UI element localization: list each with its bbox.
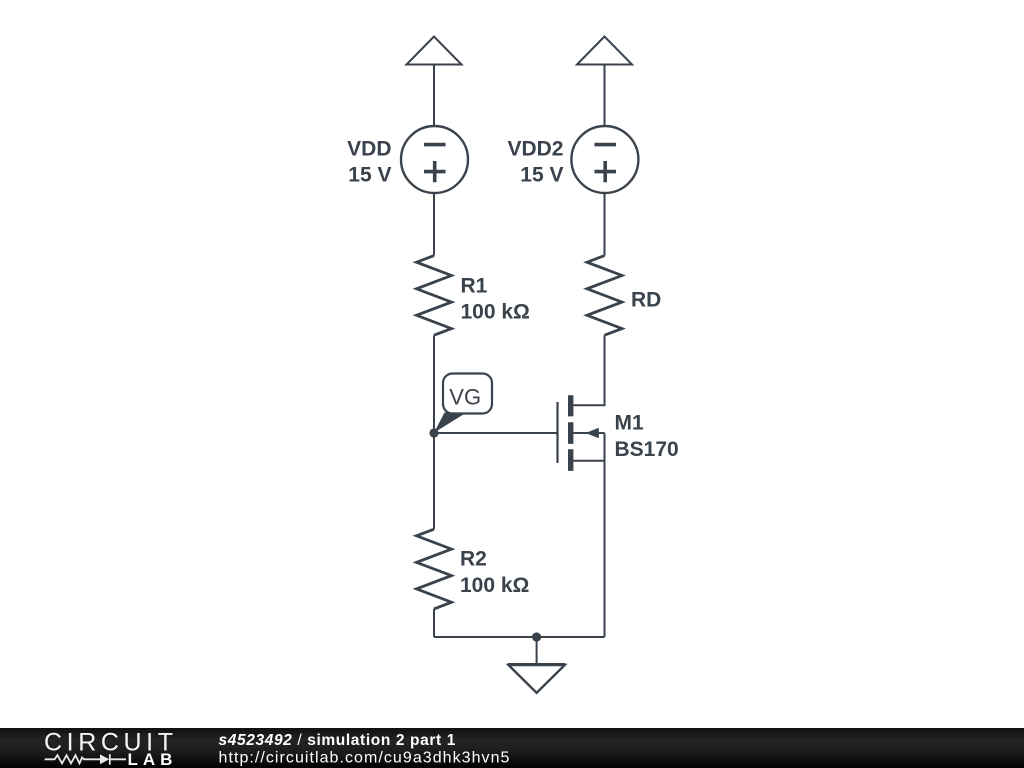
- power flag (VDD branch): [407, 37, 462, 65]
- svg-text:BS170: BS170: [615, 438, 679, 461]
- V1 minus sign: [424, 143, 446, 147]
- label VDD2: [507, 138, 563, 161]
- footer credit line 1: [219, 732, 456, 749]
- CircuitLab logo wordmark LAB: [128, 750, 178, 768]
- label M1: [615, 412, 644, 435]
- node VG dot: [429, 428, 438, 437]
- wire gate (node VG to M1 gate): [434, 432, 557, 434]
- footer url line 2: [219, 750, 511, 767]
- label M1 part BS170: [615, 438, 679, 461]
- resistor R2: [417, 529, 452, 609]
- V2 minus sign: [595, 143, 617, 147]
- wire M1 source/body down to bottom rail: [604, 433, 606, 637]
- label R2 value 100 kOhm: [460, 574, 529, 597]
- svg-text:RD: RD: [631, 289, 661, 312]
- svg-text:http://circuitlab.com/cu9a3dhk: http://circuitlab.com/cu9a3dhk3hvn5: [219, 750, 511, 767]
- svg-text:M1: M1: [615, 412, 644, 435]
- svg-text:100 kΩ: 100 kΩ: [461, 301, 530, 324]
- label R1 value 100 kOhm: [461, 301, 530, 324]
- label R2: [460, 548, 487, 571]
- CircuitLab logo resistor-diode glyph: [45, 754, 126, 764]
- svg-text:R1: R1: [461, 275, 488, 298]
- wire V2 to RD: [604, 193, 606, 256]
- wire flag2 to V2: [604, 65, 606, 127]
- resistor R1: [417, 256, 452, 336]
- footer bar: [0, 728, 1024, 768]
- svg-text:15 V: 15 V: [348, 164, 391, 187]
- V1 plus sign: [424, 161, 446, 182]
- label VDD: [347, 138, 391, 161]
- junction dot bottom rail: [532, 632, 541, 641]
- wire V1 to R1: [433, 193, 435, 256]
- transistor M1 body arrow: [573, 428, 604, 438]
- flag VG box: [443, 374, 492, 414]
- svg-text:VG: VG: [449, 384, 481, 409]
- wire RD to M1 drain: [573, 335, 604, 405]
- voltage source V2 circle: [571, 126, 638, 193]
- svg-text:VDD2: VDD2: [507, 138, 563, 161]
- label RD: [631, 289, 661, 312]
- transistor M1 gate pole: [556, 402, 558, 463]
- CircuitLab logo wordmark CIRCUIT: [44, 729, 178, 757]
- label R1: [461, 275, 488, 298]
- svg-text:R2: R2: [460, 548, 487, 571]
- wire bottom rail: [434, 636, 605, 638]
- flag VG pointer: [434, 413, 467, 433]
- resistor RD: [587, 256, 622, 336]
- power flag (VDD2 branch): [577, 37, 632, 65]
- svg-text:100 kΩ: 100 kΩ: [460, 574, 529, 597]
- wire flag1 to V1: [433, 65, 435, 127]
- svg-text:VDD: VDD: [347, 138, 391, 161]
- voltage source V1 circle: [401, 126, 468, 193]
- ground symbol: [508, 664, 565, 693]
- flag VG text: [449, 384, 481, 409]
- V2 plus sign: [595, 161, 617, 182]
- wire R1 to R2 (through node VG): [433, 335, 435, 529]
- transistor M1 channel segments: [568, 395, 573, 471]
- label V1 value 15 V: [348, 164, 391, 187]
- svg-text:s4523492 / simulation 2 part 1: s4523492 / simulation 2 part 1: [219, 732, 456, 749]
- svg-text:LAB: LAB: [128, 750, 178, 768]
- wire R2 to bottom rail: [433, 609, 435, 637]
- transistor M1 source bar: [573, 460, 604, 462]
- wire ground stub: [536, 637, 538, 664]
- label V2 value 15 V: [520, 164, 563, 187]
- svg-text:15 V: 15 V: [520, 164, 563, 187]
